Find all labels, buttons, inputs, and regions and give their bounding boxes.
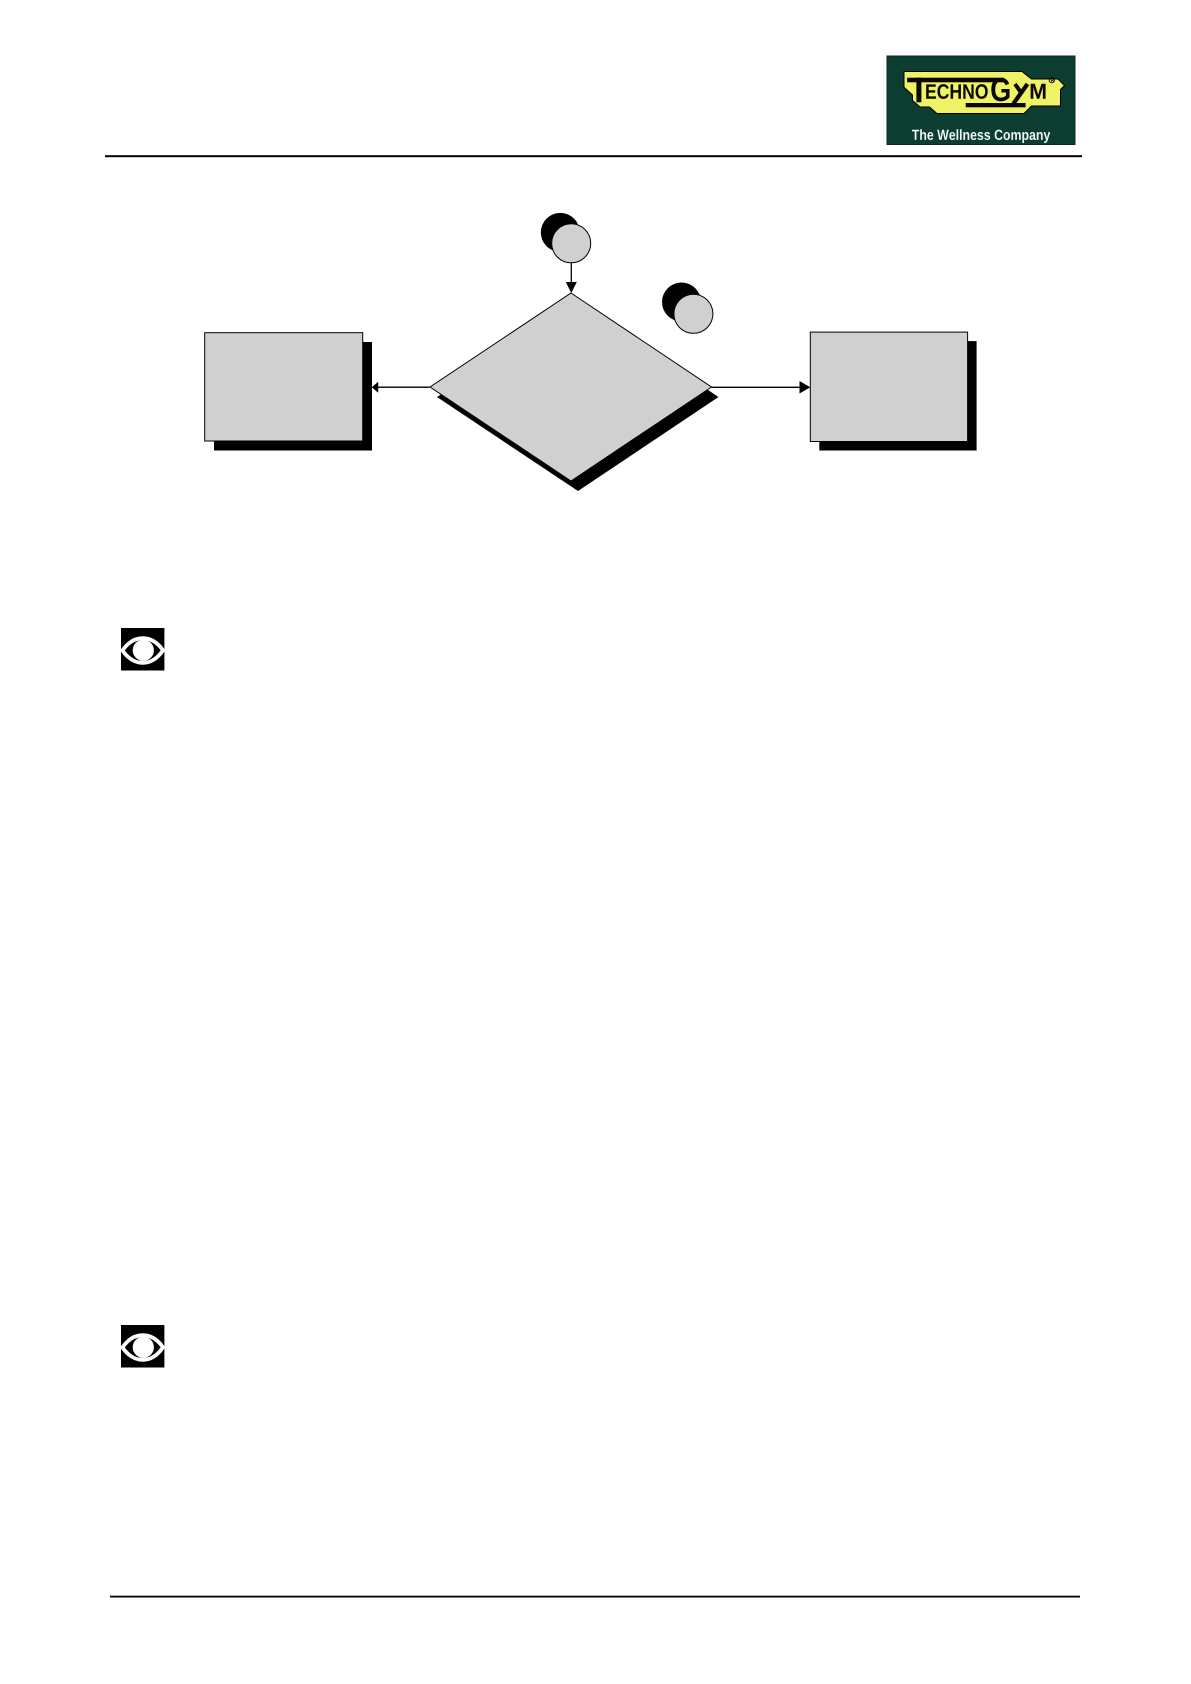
eye note icon 2 [121,1325,164,1368]
left process box [205,333,363,441]
start circle shadow [541,213,580,252]
Technogym logo [887,56,1075,145]
connector arrow from start circle to diamond [566,263,577,293]
second circle shadow [662,283,701,322]
header rule [105,155,1082,157]
arrow from diamond to left box [372,382,430,393]
right process box shadow [819,341,976,450]
diamond shadow [437,303,719,491]
right process box [810,332,967,441]
eye note icon 1 [121,628,164,671]
left process box shadow [214,342,372,451]
footer rule [110,1596,1080,1598]
decision diamond [430,293,712,481]
second circle [674,294,713,333]
arrow from diamond to right box [712,381,811,394]
start circle [552,224,591,263]
